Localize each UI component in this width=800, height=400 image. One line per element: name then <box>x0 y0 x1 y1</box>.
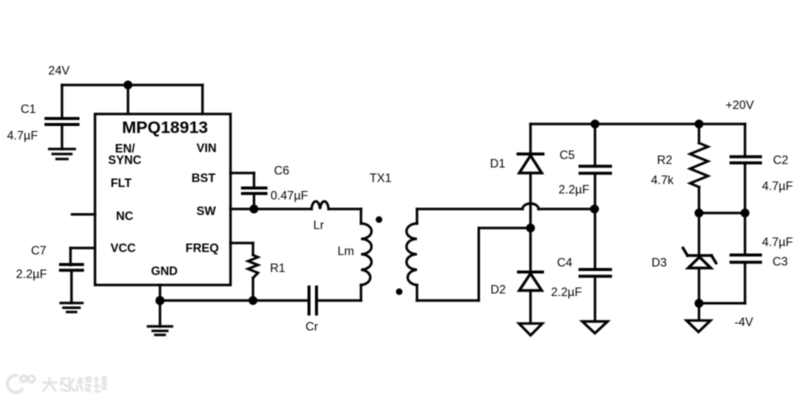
svg-text:BST: BST <box>192 171 217 185</box>
svg-text:D3: D3 <box>652 256 668 270</box>
svg-text:R2: R2 <box>657 153 673 167</box>
svg-text:VIN: VIN <box>197 141 217 155</box>
svg-text:C1: C1 <box>21 102 37 116</box>
svg-text:4.7µF: 4.7µF <box>7 128 38 142</box>
svg-text:4.7k: 4.7k <box>651 173 675 187</box>
svg-text:-4V: -4V <box>735 315 754 329</box>
svg-text:C7: C7 <box>31 243 47 257</box>
svg-text:C4: C4 <box>557 255 573 269</box>
svg-text:Lm: Lm <box>338 244 355 258</box>
svg-text:TX1: TX1 <box>370 171 392 185</box>
svg-text:2.2µF: 2.2µF <box>551 285 582 299</box>
svg-text:SW: SW <box>197 204 217 218</box>
svg-text:D2: D2 <box>491 283 507 297</box>
svg-text:Lr: Lr <box>313 218 324 232</box>
svg-text:C3: C3 <box>773 255 789 269</box>
svg-text:2.2µF: 2.2µF <box>16 267 47 281</box>
svg-text:MPQ18913: MPQ18913 <box>122 118 208 137</box>
svg-text:+20V: +20V <box>726 98 754 112</box>
svg-text:D1: D1 <box>490 157 506 171</box>
svg-text:24V: 24V <box>48 63 69 77</box>
svg-text:0.47µF: 0.47µF <box>271 189 309 203</box>
svg-text:C2: C2 <box>773 153 789 167</box>
svg-text:SYNC: SYNC <box>108 153 142 167</box>
svg-text:4.7µF: 4.7µF <box>762 179 793 193</box>
svg-text:VCC: VCC <box>111 241 137 255</box>
svg-text:4.7µF: 4.7µF <box>762 235 793 249</box>
svg-text:GND: GND <box>151 264 178 278</box>
svg-text:Cr: Cr <box>306 320 319 334</box>
svg-text:C6: C6 <box>274 163 290 177</box>
svg-text:FREQ: FREQ <box>186 241 219 255</box>
svg-text:C5: C5 <box>560 148 576 162</box>
svg-text:R1: R1 <box>270 261 286 275</box>
svg-text:FLT: FLT <box>111 176 133 190</box>
svg-text:2.2µF: 2.2µF <box>559 183 590 197</box>
svg-text:NC: NC <box>116 209 134 223</box>
